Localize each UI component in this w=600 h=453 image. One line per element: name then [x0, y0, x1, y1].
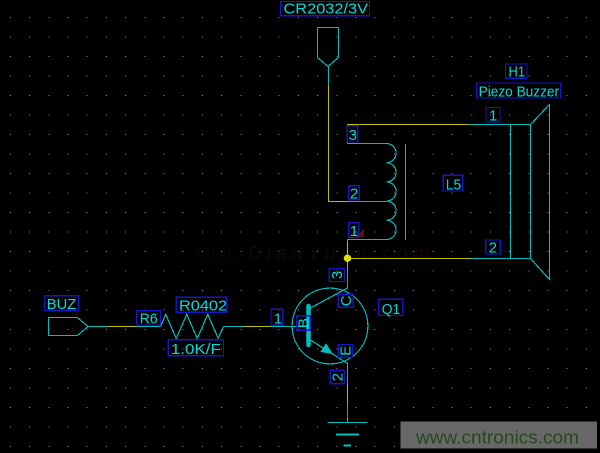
pin number 3 (Q1 collector, rotated) [329, 269, 346, 282]
svg-text:2: 2 [350, 186, 358, 203]
pin name B (rotated) [296, 316, 313, 330]
emitter arrow [320, 343, 333, 354]
coil arcs [387, 144, 397, 240]
pin 2 lead [348, 201, 387, 203]
ground symbol [328, 403, 368, 446]
svg-text:Q1: Q1 [382, 301, 401, 318]
core bar [405, 144, 407, 240]
label R6 [137, 310, 161, 327]
pin number 2 (L5) [349, 186, 360, 203]
power connector CR2032 battery [318, 28, 339, 87]
transistor Q1 NPN [271, 268, 368, 384]
wire battery to L5 pin 2 [329, 86, 349, 202]
wire junction down to Q1 collector [347, 259, 349, 268]
label Piezo Buzzer [477, 83, 561, 100]
pin number 2 (Q1 emitter, rotated) [330, 370, 347, 384]
pin number 3 (L5) [347, 126, 358, 144]
label Q1 [379, 299, 403, 318]
pin 3 lead [348, 143, 387, 145]
right pin [224, 326, 244, 328]
svg-text:L5: L5 [446, 176, 462, 193]
pin number 1 (Q1 base) [271, 309, 283, 327]
pin 1 lead [470, 124, 531, 126]
body circle [292, 288, 368, 364]
pin number 1 (H1) [486, 107, 500, 124]
collector pin [311, 268, 348, 309]
watermark www.cntronics.com [401, 422, 598, 449]
svg-text:1.0K/F: 1.0K/F [171, 341, 221, 358]
pin number 2 (H1) [486, 240, 501, 257]
port BUZ [49, 318, 89, 336]
watermark DianYuan.com (faint) [197, 244, 430, 265]
svg-text:R6: R6 [140, 310, 158, 327]
svg-text:H1: H1 [509, 64, 526, 81]
wire BUZ port stub [88, 326, 108, 328]
svg-text:Piezo Buzzer: Piezo Buzzer [479, 83, 560, 100]
wire L5 pin 3 to buzzer pin 1 [348, 125, 470, 144]
label L5 [443, 175, 463, 193]
label R0402 [176, 297, 227, 314]
svg-text:B: B [296, 318, 313, 328]
value label 1.0K/F [168, 340, 223, 358]
svg-text:1: 1 [489, 107, 497, 124]
svg-text:3: 3 [349, 127, 357, 144]
wire Q1 emitter to ground [347, 384, 349, 403]
base pin lead [271, 326, 307, 328]
pin 1 lead [348, 240, 387, 243]
resistor R6 [137, 314, 244, 338]
wire junction row to buzzer pin 2 [348, 242, 472, 259]
inductor L5 [348, 144, 406, 243]
node junction dot [344, 255, 351, 262]
label H1 [506, 64, 528, 81]
pin 2 lead [471, 258, 531, 260]
base bar [306, 306, 311, 345]
watermark fragment (red) near L5 pin 1 [356, 229, 364, 238]
body rectangle [510, 125, 512, 259]
svg-text:C: C [338, 295, 355, 306]
pin name E (rotated) [338, 345, 355, 358]
label CR2032/3V [281, 1, 370, 18]
wire BUZ to R6 [108, 326, 137, 328]
svg-text:R0402: R0402 [179, 297, 227, 314]
wire R6 to Q1 base [244, 326, 271, 328]
svg-text:2: 2 [489, 240, 497, 257]
cone [531, 105, 550, 280]
svg-text:1: 1 [350, 223, 358, 240]
label BUZ [44, 296, 78, 313]
svg-text:E: E [338, 346, 355, 356]
buzzer H1 piezo symbol [470, 105, 550, 280]
svg-text:3: 3 [329, 271, 346, 279]
pin number 1 (L5) [349, 223, 359, 240]
left pin [137, 326, 161, 328]
pin name C (rotated) [338, 294, 355, 307]
svg-text:CR2032/3V: CR2032/3V [284, 1, 369, 18]
svg-text:2: 2 [330, 373, 347, 381]
svg-text:BUZ: BUZ [47, 296, 77, 313]
svg-text:1: 1 [274, 310, 282, 327]
svg-text:www.cntronics.com: www.cntronics.com [415, 428, 579, 448]
emitter pin [311, 340, 348, 384]
zigzag [161, 314, 224, 338]
